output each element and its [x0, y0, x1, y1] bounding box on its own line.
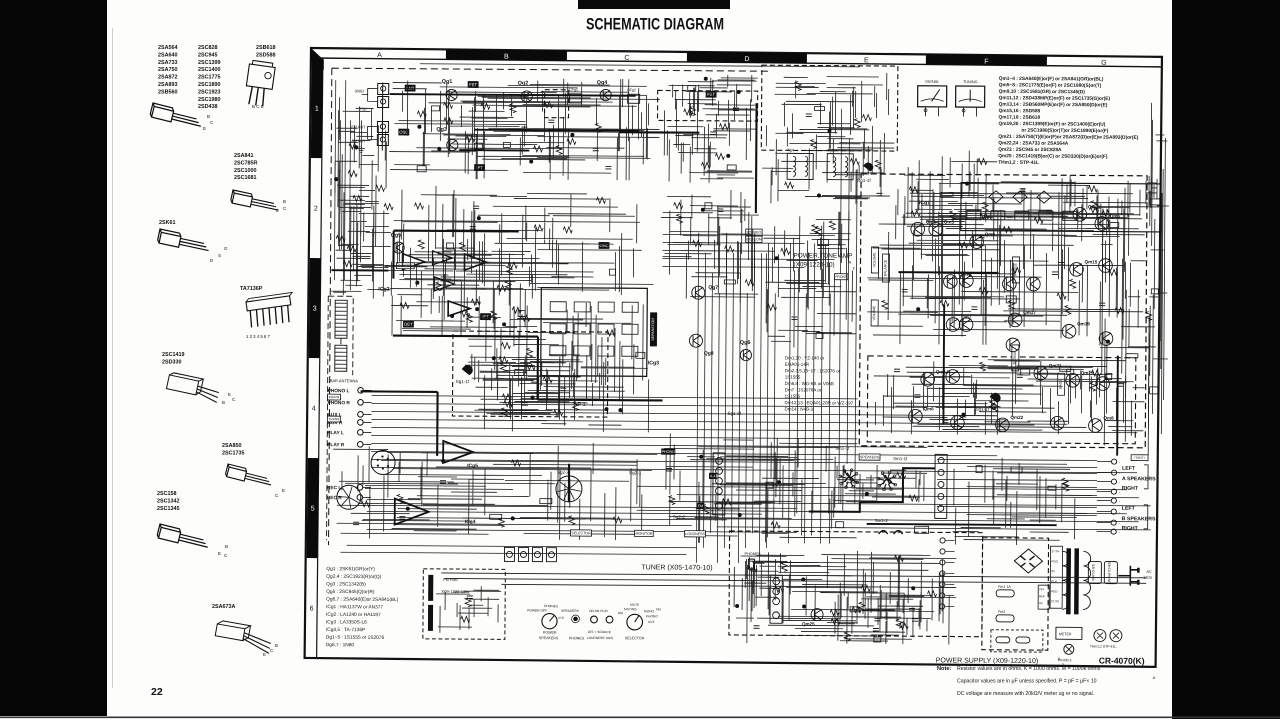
bar antenna coils — [335, 300, 347, 338]
svg-text:VOLUME: VOLUME — [872, 305, 876, 320]
thick speaker wires — [809, 467, 935, 512]
transistor Qm5 — [1095, 217, 1109, 231]
connector bars in dashed box — [428, 575, 433, 601]
badge VOLUME — [871, 247, 878, 273]
transistor Qm — [946, 370, 960, 384]
svg-text:27.9V: 27.9V — [1051, 599, 1059, 603]
transistor Qg5 — [393, 242, 404, 253]
svg-text:CR-4070(K): CR-4070(K) — [1099, 656, 1145, 666]
transistor drawing 2SC1419 flat package — [166, 372, 221, 402]
thick amp buses — [867, 272, 1119, 526]
thick signal buses — [360, 100, 757, 503]
transistor Qg3 — [447, 139, 458, 150]
svg-text:B SPEAKERS: B SPEAKERS — [1122, 516, 1156, 522]
long vertical bus bundle — [696, 233, 698, 563]
antenna terminal strip — [381, 83, 383, 151]
svg-text:MONO: MONO — [644, 609, 654, 613]
svg-text:2SC828: 2SC828 — [198, 45, 217, 51]
speaker terminal circles — [1112, 459, 1117, 464]
wires power amp mesh upper — [867, 184, 1144, 346]
wires ICg2 mesh — [384, 241, 533, 337]
svg-text:Dg1~5 : 1S1555 or 1S2076: Dg1~5 : 1S1555 or 1S2076 — [326, 635, 385, 641]
svg-text:2SC1775: 2SC1775 — [198, 75, 220, 81]
svg-text:2SC1735: 2SC1735 — [222, 450, 244, 456]
DIN connector circle — [371, 450, 395, 474]
knob SELECTOR — [627, 614, 643, 630]
svg-text:Dm11: Dm11 — [884, 608, 893, 612]
svg-text:Qg3 : 2SC1342(B): Qg3 : 2SC1342(B) — [326, 581, 366, 587]
grid column label F — [926, 54, 1047, 65]
svg-text:PLAY L: PLAY L — [327, 430, 344, 436]
svg-text:Qg3: Qg3 — [436, 127, 447, 133]
badge PHONO — [661, 448, 675, 454]
transistor drawing TO-92 group2 — [230, 190, 280, 213]
svg-text:2SC1890: 2SC1890 — [198, 82, 220, 88]
svg-text:SPEAKERS: SPEAKERS — [561, 609, 580, 613]
svg-text:SEPARATION: SEPARATION — [651, 318, 655, 341]
transistor Qm3 — [929, 223, 943, 237]
svg-text:TREBLE: TREBLE — [1013, 350, 1017, 364]
svg-text:0V: 0V — [1051, 569, 1055, 573]
svg-text:BASS: BASS — [1059, 379, 1063, 389]
svg-text:OFF ▪ SOURCE: OFF ▪ SOURCE — [588, 630, 611, 634]
svg-text:G: G — [224, 246, 228, 251]
svg-text:2SD588: 2SD588 — [256, 52, 275, 58]
transistor Qm9 — [970, 235, 984, 249]
svg-text:2SC1681: 2SC1681 — [234, 175, 256, 181]
svg-text:E: E — [276, 208, 279, 213]
svg-text:DET: DET — [404, 322, 413, 327]
svg-text:6: 6 — [310, 605, 314, 612]
svg-text:BALANCE: BALANCE — [883, 259, 887, 276]
wires AM IF mesh — [664, 98, 758, 183]
power supply connector column — [940, 538, 945, 543]
wires predriver mesh — [763, 210, 857, 348]
svg-text:2SK61: 2SK61 — [159, 220, 175, 226]
badge BASS — [1058, 373, 1065, 395]
transistor Qm — [951, 416, 965, 430]
wires AM osc mesh — [669, 75, 758, 121]
svg-text:PHONES: PHONES — [544, 604, 559, 608]
rotary switch Sg2-2f — [556, 476, 582, 502]
svg-text:E: E — [218, 551, 221, 556]
svg-text:ANT: ANT — [406, 86, 415, 91]
transistor drawing 2SC158 TO-92 — [157, 524, 211, 550]
grid column label B — [446, 49, 567, 60]
wires connector box mesh — [436, 586, 501, 633]
IC ICg1 MPX block — [961, 183, 1161, 232]
svg-text:Sg1-1f: Sg1-1f — [857, 178, 871, 183]
svg-text:1: 1 — [315, 106, 319, 113]
svg-text:300Ω: 300Ω — [355, 89, 364, 93]
page gutter shadow line — [112, 28, 113, 688]
svg-text:FRONT: FRONT — [835, 275, 847, 279]
svg-text:G: G — [1101, 60, 1107, 67]
svg-text:Tg4: Tg4 — [787, 148, 794, 152]
wires right upper mesh — [1148, 103, 1170, 480]
svg-text:RIGHT: RIGHT — [1122, 486, 1139, 492]
transformer tap box lower — [1038, 585, 1049, 609]
svg-text:RED: RED — [1051, 559, 1058, 563]
svg-text:Dm6,8 : WO-6B or V06B: Dm6,8 : WO-6B or V06B — [785, 381, 834, 386]
meter lamp — [1056, 627, 1082, 639]
badge FM — [697, 503, 705, 509]
transistor drawing 2SA673A flat package — [214, 620, 273, 653]
frame corner wedge — [311, 48, 324, 70]
transistor drawing TO-92 group1 — [150, 103, 204, 129]
badge LOUDNESS — [685, 531, 706, 537]
transistor Qm — [959, 318, 973, 332]
svg-text:Qm23 : 2SC945 or 2SC828A: Qm23 : 2SC945 or 2SC828A — [998, 147, 1062, 153]
svg-text:2SB618: 2SB618 — [256, 45, 275, 51]
svg-text:2SC158: 2SC158 — [157, 491, 176, 497]
transistor Qm — [1027, 277, 1041, 291]
transistor Qm13 — [944, 275, 958, 289]
svg-text:Qm19,20 : 2SC1399(E)or(F) or 2: Qm19,20 : 2SC1399(E)or(F) or 2SC1400(E)o… — [998, 121, 1105, 128]
wires top rails — [420, 64, 860, 67]
transistor Qm — [1006, 338, 1020, 352]
wires speaker switch mesh — [833, 465, 927, 505]
svg-text:Qm15,16 : 2SD588: Qm15,16 : 2SD588 — [999, 108, 1041, 114]
transistor drawing 2SB618 power package — [244, 60, 276, 107]
input bus wires — [372, 395, 858, 398]
grid header band — [313, 58, 1161, 67]
svg-text:1 2 3 4 5 6 7: 1 2 3 4 5 6 7 — [246, 334, 271, 339]
ceramic filter CFg2 — [628, 94, 640, 103]
svg-text:B: B — [504, 54, 509, 61]
svg-text:Sm1-1f: Sm1-1f — [893, 456, 908, 461]
switch Sg1-1f right — [990, 393, 1001, 403]
svg-text:B: B — [207, 114, 210, 119]
dashed box power supply — [729, 531, 983, 637]
svg-text:A: A — [848, 260, 851, 265]
badge 45RPM — [328, 394, 341, 400]
svg-text:Dm7 : 1S2076A or: Dm7 : 1S2076A or — [785, 387, 822, 392]
svg-text:E: E — [203, 126, 206, 131]
svg-text:2SA750: 2SA750 — [158, 67, 177, 73]
svg-text:S: S — [218, 253, 221, 258]
wires tape monitor mesh — [664, 433, 858, 543]
mid horizontal distribution wires — [337, 505, 797, 508]
svg-text:TUNER (X05-1470-10): TUNER (X05-1470-10) — [641, 564, 712, 571]
wires AM converter lower mesh — [660, 189, 759, 303]
IC ICg3 decoder block — [541, 288, 648, 377]
badge IFT top — [474, 164, 485, 171]
schematic outer frame — [305, 48, 1162, 667]
svg-text:Qm11,12 : 2SD438MP(E)or(F) or: Qm11,12 : 2SD438MP(E)or(F) or 2SC1735(G)… — [999, 95, 1111, 102]
transistor Qm — [1096, 377, 1110, 391]
svg-text:Sg1-1f: Sg1-1f — [456, 379, 470, 384]
transistor Qm1 — [911, 222, 925, 236]
transistor Qm17 — [1008, 313, 1022, 327]
svg-text:FM ANT: FM ANT — [351, 125, 366, 129]
thick front-end buses — [331, 94, 639, 273]
svg-text:RIGHT: RIGHT — [1122, 526, 1139, 532]
transistor Qm — [1099, 332, 1113, 346]
svg-text:Qm8: Qm8 — [1103, 416, 1114, 421]
bridge rectifier — [1014, 549, 1042, 573]
wires regulator mesh — [834, 592, 931, 645]
IC drawing TA7136P SIP-7 — [246, 292, 297, 327]
svg-text:CFg2: CFg2 — [627, 88, 636, 92]
svg-text:Qm15: Qm15 — [1085, 259, 1098, 264]
transistor drawing 2SA850 TO-92 — [225, 464, 273, 488]
svg-text:2SA841: 2SA841 — [234, 153, 253, 159]
switch Sg1-1f mid — [462, 365, 473, 375]
svg-text:0V: 0V — [1039, 601, 1043, 605]
svg-text:Qm6: Qm6 — [923, 406, 934, 411]
svg-text:Fm1 1A: Fm1 1A — [998, 585, 1011, 589]
fuse Fm1 — [996, 590, 1014, 597]
svg-text:25V: 25V — [1039, 587, 1044, 591]
svg-text:22: 22 — [151, 686, 163, 698]
transistor Qg4 — [600, 89, 611, 100]
svg-text:POWER SUPPLY (X09-1220-10): POWER SUPPLY (X09-1220-10) — [936, 657, 1038, 665]
svg-text:2: 2 — [314, 206, 318, 213]
svg-text:Sm1-1f: Sm1-1f — [835, 446, 850, 451]
svg-text:FET: FET — [469, 82, 477, 87]
svg-text:ICg2 : LA1240 or HA1197: ICg2 : LA1240 or HA1197 — [326, 612, 381, 618]
svg-text:Qm22,24 : 2SA733 or 2SA564A: Qm22,24 : 2SA733 or 2SA564A — [998, 140, 1068, 146]
transistor Qm — [1003, 277, 1017, 291]
IC ICg2 opamp triangles — [402, 254, 424, 270]
transistor Qg6 — [740, 349, 751, 360]
svg-text:SELECTOR: SELECTOR — [571, 531, 591, 535]
svg-text:TRANS: TRANS — [328, 417, 339, 421]
svg-text:Qm17,18 : 2SB618: Qm17,18 : 2SB618 — [999, 115, 1041, 121]
svg-text:Fm2: Fm2 — [998, 610, 1005, 614]
svg-text:Qm13,14 : 2SB560MP(E)or(F) or: Qm13,14 : 2SB560MP(E)or(F) or 2SA850(D)o… — [999, 102, 1108, 109]
svg-text:Dm12: Dm12 — [868, 608, 878, 612]
svg-text:2SA893: 2SA893 — [158, 82, 177, 88]
svg-text:1S1555: 1S1555 — [785, 394, 801, 399]
grid row strip — [317, 58, 323, 658]
svg-text:ICg1 : HA1137W or AN377: ICg1 : HA1137W or AN377 — [326, 604, 383, 610]
svg-text:-6: -6 — [1152, 676, 1155, 680]
wires MPX mesh right — [1001, 175, 1159, 242]
svg-text:PLAY R: PLAY R — [327, 442, 345, 448]
svg-text:A SPEAKERS: A SPEAKERS — [1122, 476, 1156, 482]
svg-text:B: B — [283, 199, 286, 204]
svg-text:POWER: POWER — [543, 631, 557, 635]
badge BALANCE — [882, 254, 889, 282]
transformer core bars — [1066, 548, 1071, 614]
svg-text:2SC1000: 2SC1000 — [234, 168, 256, 174]
svg-text:LOUDNESS TAPE: LOUDNESS TAPE — [587, 636, 613, 640]
transistor Qm22 — [996, 418, 1010, 432]
svg-text:ON AM PLAY: ON AM PLAY — [589, 609, 609, 613]
svg-text:2SA564: 2SA564 — [158, 45, 177, 51]
svg-text:Sg2-1: Sg2-1 — [629, 470, 642, 475]
transistor Qg1 — [446, 89, 457, 100]
svg-text:A+B: A+B — [558, 616, 564, 620]
svg-text:2SA673A: 2SA673A — [212, 604, 235, 610]
transistor Qm6 — [909, 409, 923, 423]
svg-text:SWITCHED: SWITCHED — [1091, 563, 1095, 581]
svg-text:Qg5 : 2SC945(Q)or(R): Qg5 : 2SC945(Q)or(R) — [326, 589, 375, 595]
dashed box FM IF — [545, 90, 569, 118]
transistor drawing 2SK61 TO-92 — [157, 229, 211, 254]
svg-text:CFg1: CFg1 — [569, 88, 578, 92]
badge OSC2 — [599, 242, 610, 249]
lower connector strip — [770, 575, 782, 623]
svg-text:5: 5 — [311, 506, 315, 513]
wires FM front end mesh — [389, 78, 660, 181]
svg-text:MUTING: MUTING — [624, 607, 637, 611]
svg-text:SPEAKERS: SPEAKERS — [860, 455, 880, 459]
svg-text:D: D — [744, 56, 749, 63]
wires MPX mesh — [904, 150, 1000, 240]
svg-text:3: 3 — [313, 306, 317, 313]
svg-text:F: F — [984, 59, 988, 66]
svg-text:RED: RED — [1051, 589, 1058, 593]
IC ICg5 opamp — [443, 441, 473, 463]
dashed box power amplifier — [859, 174, 1147, 448]
svg-text:2SC1345: 2SC1345 — [157, 506, 179, 512]
svg-text:PHONO: PHONO — [662, 450, 675, 454]
wires meter feed mesh — [774, 72, 889, 149]
svg-text:Qg7: Qg7 — [708, 285, 718, 291]
transistor Qg2 — [521, 91, 532, 102]
svg-text:PHONO L: PHONO L — [328, 388, 350, 394]
transformer windings — [1062, 551, 1070, 609]
rotary switch Sg1-2f circle — [337, 485, 361, 509]
svg-text:Qm1~4 : 2SA640(E)or(F) or 2SA: Qm1~4 : 2SA640(E)or(F) or 2SA841(GR)or(B… — [999, 76, 1104, 83]
badge IFT — [480, 313, 491, 320]
svg-text:A: A — [377, 52, 382, 59]
svg-text:Qm21 : 2SA750(T)(E)or(F)or: Qm21 : 2SA750(T)(E)or(F)or 2SA872(D)or(E… — [998, 134, 1138, 141]
meter TUNING — [956, 86, 985, 107]
svg-text:ICg4: ICg4 — [465, 519, 476, 525]
svg-text:E: E — [228, 392, 231, 397]
svg-text:Dm13: Dm13 — [852, 608, 862, 612]
svg-text:THm1,2 : STP-41L: THm1,2 : STP-41L — [998, 160, 1039, 166]
svg-text:E: E — [263, 652, 266, 657]
svg-text:POWER OFF: POWER OFF — [527, 609, 547, 613]
svg-text:MONITOR: MONITOR — [635, 532, 652, 536]
speaker connector strip — [935, 454, 947, 518]
svg-text:ICg3: ICg3 — [648, 360, 659, 366]
svg-text:BLB: BLB — [1039, 594, 1044, 598]
dashed box rectifier — [982, 538, 1049, 650]
svg-text:EQA01-14R: EQA01-14R — [785, 362, 810, 367]
dashed box power amp lower — [867, 356, 1136, 444]
transistor Qm — [1051, 416, 1065, 430]
svg-text:THm1,2 STP-41L: THm1,2 STP-41L — [1090, 644, 1117, 648]
grid row label 3 — [309, 258, 321, 358]
svg-text:SIGNAL: SIGNAL — [925, 80, 939, 84]
wires decoder mesh — [478, 302, 649, 432]
svg-text:Note:: Note: — [937, 666, 951, 672]
svg-text:SPEAKERS: SPEAKERS — [539, 636, 559, 640]
knob POWER/SPEAKERS — [542, 614, 557, 629]
AC plug — [1118, 566, 1138, 586]
transistor Qm11 — [1073, 208, 1087, 222]
ceramic filter CFg1 — [570, 94, 582, 103]
svg-text:Qm9,10 : 2SC1681(GR) or 2SC134: Qm9,10 : 2SC1681(GR) or 2SC1345(D) — [999, 89, 1086, 96]
right black scan bar — [1172, 0, 1280, 719]
wires left input mesh — [335, 97, 389, 290]
transistor Qm21 — [1034, 366, 1048, 380]
transistor Qg8 — [689, 334, 702, 347]
transformer tap box upper — [1050, 546, 1062, 608]
svg-text:2SC1342: 2SC1342 — [157, 498, 179, 504]
transistor Qm23 — [1066, 373, 1080, 387]
svg-text:ITAV/TI: ITAV/TI — [1134, 456, 1144, 460]
FM/AM antenna stub wires — [361, 88, 377, 139]
fuse Fm2 — [996, 615, 1014, 622]
svg-text:Qg6,7 : 2SA640(E)or 2SA841(BL): Qg6,7 : 2SA640(E)or 2SA841(BL) — [326, 597, 399, 604]
wires power amp mesh lower — [873, 359, 1134, 436]
svg-text:LEFT: LEFT — [1122, 506, 1136, 512]
badge DET — [403, 321, 414, 328]
svg-text:METER: METER — [1059, 632, 1072, 636]
AC outlets SWITCHED — [1088, 561, 1101, 583]
svg-text:SELECTOR: SELECTOR — [625, 636, 645, 640]
IF transformer Tg5 — [827, 154, 853, 180]
svg-text:Qm25 : 2SC1419(B)or(C) or 2: Qm25 : 2SC1419(B)or(C) or 2SD330(D)or(E)… — [998, 153, 1108, 160]
dial lamps — [1094, 629, 1106, 641]
switch Sg1-1f tuning — [863, 162, 873, 171]
dashed box AM converter — [657, 90, 757, 121]
svg-text:Qm1: Qm1 — [926, 219, 937, 224]
badge SPEAKERS — [859, 454, 880, 460]
svg-text:2SA850: 2SA850 — [222, 443, 241, 449]
transistor Qm15 — [1070, 263, 1084, 277]
svg-text:2SC1400: 2SC1400 — [198, 67, 220, 73]
svg-text:POWER,TONE AMP: POWER,TONE AMP — [794, 252, 853, 259]
transistor Qm25 — [811, 609, 823, 621]
svg-text:Dm14 : N4B-3: Dm14 : N4B-3 — [784, 407, 813, 412]
wires right bottom mesh — [953, 458, 1093, 546]
REL box — [915, 526, 929, 533]
svg-text:2SD330: 2SD330 — [162, 359, 181, 365]
transistor Qm — [1099, 259, 1113, 273]
svg-text:2SA640: 2SA640 — [158, 52, 177, 58]
svg-text:B: B — [222, 400, 225, 405]
phones jack dot — [573, 617, 578, 622]
badge ITAV/TI — [1131, 455, 1148, 461]
svg-text:LOUDNESS: LOUDNESS — [685, 532, 705, 536]
wires tuner secondary mesh — [393, 186, 654, 298]
transistor Qm8 — [1089, 419, 1103, 433]
svg-text:DC voltage are measure with 20: DC voltage are measure with 20kΩ/V meter… — [957, 691, 1094, 697]
svg-text:2SA872: 2SA872 — [158, 75, 177, 81]
badge TREBLE — [1012, 257, 1019, 283]
badge VOLUME2 — [871, 300, 878, 326]
svg-text:or 2SC1980(S)or(T)or 2SC1890(E: or 2SC1980(S)or(T)or 2SC1890(E)or(F) — [1021, 128, 1108, 135]
svg-text:VOLUME: VOLUME — [872, 252, 876, 267]
svg-text:PHONES: PHONES — [744, 552, 761, 556]
grid row label 1 — [311, 58, 323, 158]
dashed tuner outline — [329, 68, 770, 548]
svg-text:FM: FM — [698, 504, 703, 508]
svg-text:ICg4,5 : TA-7136P: ICg4,5 : TA-7136P — [326, 627, 365, 633]
svg-text:Qg1 : 2SK61(GR)or(Y): Qg1 : 2SK61(GR)or(Y) — [326, 566, 375, 572]
badge TRANS — [327, 416, 340, 422]
svg-text:E: E — [282, 488, 285, 493]
long horizontal power bus — [441, 573, 1146, 589]
tuner connector row — [504, 547, 514, 561]
dashed box tuner meters — [761, 65, 898, 151]
transistor Qm — [960, 274, 974, 288]
wires bottom center mesh — [734, 561, 779, 618]
transistor Qg7 — [692, 286, 705, 299]
svg-text:AM: AM — [618, 611, 623, 615]
svg-text:UNSWITCHED: UNSWITCHED — [1107, 561, 1111, 583]
badge FET — [468, 81, 479, 88]
svg-text:ICg3 : LA3350S-L6: ICg3 : LA3350S-L6 — [326, 619, 367, 625]
